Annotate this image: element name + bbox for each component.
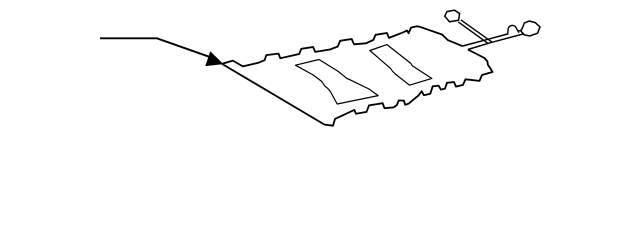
harness ribbon lower edge (468, 34, 525, 50)
heater element strip 1 (296, 60, 379, 105)
harness ribbon upper edge (462, 30, 521, 46)
leader line (100, 38, 215, 59)
wire 1 lower line (458, 22, 488, 44)
arrowhead (206, 52, 222, 65)
heater pad outline (222, 26, 493, 125)
connector clip (middle blob) (508, 25, 519, 34)
connector A (small pentagon) (445, 10, 460, 22)
heater element strip 2 (370, 45, 432, 86)
wire 1 upper line (461, 20, 493, 43)
connector B (large) (521, 21, 540, 36)
